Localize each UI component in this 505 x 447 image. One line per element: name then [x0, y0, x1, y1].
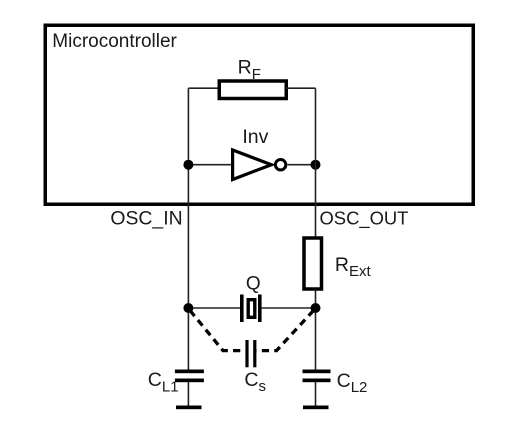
wire R_Ext to crystal node	[315, 290, 317, 370]
dashed wire stray cap left	[190, 311, 246, 351]
svg-text:Cs: Cs	[244, 369, 266, 395]
wire R_F right	[286, 87, 316, 89]
svg-text:OSC_OUT: OSC_OUT	[320, 208, 409, 230]
capacitor C_L1	[175, 370, 204, 383]
svg-text:Microcontroller: Microcontroller	[52, 31, 177, 52]
wire OSC_OUT vertical	[315, 88, 317, 237]
resistor R_Ext	[304, 238, 322, 289]
svg-text:RF: RF	[238, 57, 261, 83]
wire R_F left	[188, 87, 219, 89]
op-amp U2 inverter	[233, 150, 286, 180]
node crystal right junction	[311, 303, 321, 313]
wire inverter input	[188, 164, 232, 166]
capacitor C_s	[245, 340, 256, 367]
ground C_L1	[176, 406, 202, 410]
svg-text:OSC_IN: OSC_IN	[110, 208, 182, 230]
wire crystal right	[262, 307, 316, 309]
crystal Q	[240, 295, 262, 323]
wire OSC_IN vertical	[187, 88, 189, 369]
svg-text:RExt: RExt	[335, 254, 372, 280]
svg-text:Inv: Inv	[242, 126, 268, 148]
resistor R_F	[219, 81, 286, 99]
svg-text:Q: Q	[246, 273, 261, 294]
wire inverter output	[288, 164, 316, 166]
svg-text:CL2: CL2	[337, 370, 368, 396]
capacitor C_L2	[303, 370, 331, 383]
wire C_L1 to ground	[187, 382, 189, 406]
svg-text:CL1: CL1	[148, 369, 179, 395]
wire crystal left	[188, 307, 240, 309]
ground C_L2	[303, 406, 329, 410]
wire C_L2 above	[315, 382, 317, 406]
node junction right inverter	[311, 160, 321, 170]
node crystal left junction	[183, 303, 193, 313]
dashed wire stray cap right	[257, 311, 314, 351]
node junction left inverter	[183, 160, 193, 170]
microcontroller box U1	[45, 25, 473, 204]
